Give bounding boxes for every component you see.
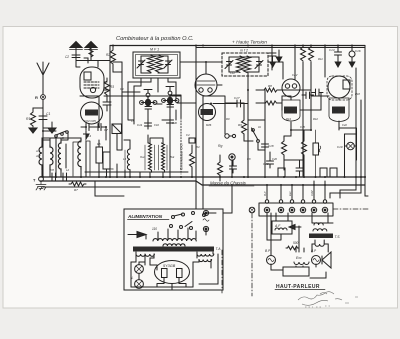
capacitor C4: [81, 124, 94, 131]
wire: partial bus at y=172: [85, 171, 188, 173]
capacitor C13 with chassis arrow: [335, 46, 342, 68]
svg-text:B.P: B.P: [263, 191, 267, 196]
capacitor C8b: [63, 173, 67, 181]
mains voltage selector: [172, 216, 175, 219]
svg-text:R13: R13: [286, 117, 291, 121]
wire: left block verticals: [56, 61, 110, 177]
signature scribble: [298, 292, 342, 306]
svg-text:R11: R11: [318, 57, 323, 61]
terminal 3: [289, 207, 294, 212]
TA primary taps: [158, 228, 196, 239]
svg-text:R18: R18: [355, 92, 360, 96]
wire: line to alimentation: [95, 181, 124, 196]
svg-text:C11: C11: [137, 123, 143, 127]
wire: R14 tails: [256, 96, 282, 110]
resistor R10: [218, 160, 223, 178]
resistor R9: [242, 117, 247, 136]
oscillator coil stack 3 (dense): [162, 143, 165, 172]
V1 grid bars: [84, 82, 99, 88]
trimmer capacitor CT1: [146, 93, 150, 97]
wire: vertical feeder x122: [121, 62, 123, 150]
resistor R1: [31, 108, 44, 127]
svg-text:R6: R6: [110, 167, 114, 171]
TA tap coil row 2: [163, 244, 185, 246]
earth aerial symbol right: [90, 47, 92, 60]
oscillator coil stack 1: [127, 148, 130, 172]
wire: interconnect y62: [98, 61, 122, 63]
wire: rectifier pins: [150, 265, 186, 290]
terminal 1: [264, 207, 269, 212]
resistor box on bus 1: [278, 168, 285, 177]
wire: feeder x272: [271, 46, 273, 71]
TA secondary left (filaments): [136, 254, 154, 256]
wire: V4 top: [206, 62, 222, 74]
wire: feeder x295: [294, 46, 296, 81]
coil L3 with core: [58, 141, 61, 171]
svg-text:BL6: BL6: [334, 109, 343, 114]
TS core: [309, 234, 333, 239]
svg-text:C15: C15: [300, 125, 305, 129]
capacitor C2 on aerial stem: [72, 55, 80, 58]
svg-text:C8: C8: [247, 157, 251, 161]
MF1 trimmer cap right: [164, 56, 172, 73]
terminal T with earth: [39, 177, 44, 182]
tube V5 label BM7: [284, 107, 297, 114]
electrolytic C16 with chassis arrow: [349, 51, 355, 57]
resistor R16: [302, 138, 307, 157]
resistor R12: [309, 47, 314, 61]
node R terminal: [41, 95, 46, 100]
grommet terminal: [249, 207, 255, 213]
wire: coil stack drops to bus: [130, 170, 163, 177]
svg-text:C12: C12: [230, 71, 235, 75]
coil L1: [39, 145, 42, 170]
svg-text:S: S: [62, 136, 64, 140]
svg-text:Int: Int: [258, 125, 261, 129]
svg-text:C22: C22: [342, 123, 347, 127]
tube V5 top diodes: [282, 79, 300, 97]
svg-text:A.T: A.T: [35, 149, 41, 153]
tube V6 body: [329, 98, 349, 122]
trimmer capacitor CT2: [168, 91, 172, 95]
speaker frame box: [283, 267, 309, 276]
junction dots misc: [266, 184, 268, 186]
resistor R8 horizontal: [262, 88, 279, 92]
svg-text:R7: R7: [74, 188, 78, 192]
resistor R15: [282, 138, 287, 157]
svg-text:HAUT-PARLEUR: HAUT-PARLEUR: [276, 284, 320, 290]
speaker BP coil right: [312, 256, 321, 265]
resistor R3: [105, 78, 110, 98]
wire: speaker block: [271, 213, 326, 278]
svg-text:Rg: Rg: [218, 144, 222, 148]
svg-text:A.F: A.F: [274, 224, 281, 228]
TA secondary right row2: [199, 260, 212, 262]
TS secondary coil: [315, 244, 324, 246]
svg-text:L3: L3: [88, 134, 91, 138]
rectifier anode plates: [162, 269, 168, 278]
MF2 primary coil: [237, 56, 244, 73]
wire: V5 stem: [290, 97, 292, 136]
wire: feeder x352: [351, 46, 353, 51]
capacitor C18: [262, 141, 269, 151]
wire: left block horizontals: [42, 96, 99, 177]
svg-text:6M6: 6M6: [206, 123, 212, 127]
junction dots on chassis bus: [42, 176, 44, 178]
wire: alim internals: [131, 213, 216, 287]
wire: chassis bus lower: [40, 181, 365, 185]
tube V6 dashed shield: [327, 76, 352, 100]
MF2 secondary coil: [244, 56, 251, 73]
decoupling cap arrow pair left: [269, 53, 276, 62]
junction dots on HT rail: [112, 44, 114, 46]
svg-text:R3: R3: [110, 85, 114, 89]
wire: chassis bus upper: [40, 176, 365, 178]
MF1 secondary coil: [156, 55, 163, 72]
svg-text:L: L: [132, 276, 134, 280]
wire: V2 grid runs: [122, 92, 196, 104]
capacitor C6: [103, 98, 111, 111]
wire: vertical feeder x196 to alim: [195, 46, 197, 210]
capacitor C15: [312, 89, 323, 96]
resistor box on bus 2: [330, 168, 337, 177]
oscillator coil stack 2 (dense): [149, 143, 152, 172]
svg-text:R5: R5: [97, 142, 101, 146]
wire: feeder x265: [264, 90, 266, 176]
svg-text:M F 1: M F 1: [150, 48, 159, 52]
wire: coil frame lines: [73, 141, 90, 176]
svg-text:B.P: B.P: [311, 249, 317, 253]
wire: right side drops to terminal row: [267, 181, 368, 198]
wire: feeder x325: [324, 46, 326, 78]
TA secondary right (HT): [197, 254, 214, 256]
svg-text:Commutateur O.C.: Commutateur O.C.: [180, 143, 184, 170]
svg-text:C2: C2: [65, 55, 69, 59]
IF transformer MF1 box: [133, 52, 180, 78]
commutateur dashed shaft: [180, 118, 182, 174]
terminal 4: [300, 207, 305, 212]
transformer TA primary winding: [153, 239, 196, 241]
wire: MF1 internal joins: [141, 56, 168, 73]
svg-text:C8: C8: [50, 168, 54, 172]
wire: left column main: [42, 100, 44, 176]
resistor R14 horizontal: [264, 101, 278, 105]
wire: right rail 2: [360, 100, 362, 181]
wire: V2/V3 stems: [148, 107, 170, 123]
wire: detector output: [213, 85, 237, 104]
tube V5 body: [282, 100, 300, 121]
wire: V1 top cap: [84, 58, 88, 63]
svg-text:+ Haute Tension: + Haute Tension: [232, 40, 267, 46]
svg-text:C9: C9: [131, 119, 135, 123]
wire: MF1 out drops: [141, 78, 176, 92]
svg-text:R4: R4: [196, 145, 200, 149]
wire: lower return line: [43, 186, 140, 188]
svg-text:C1: C1: [46, 112, 50, 116]
svg-text:6C06: 6C06: [86, 111, 96, 116]
svg-text:BM7: BM7: [285, 109, 295, 114]
resistor R4: [190, 150, 195, 169]
arrow into AF box: [289, 225, 301, 230]
terminal plugs: [267, 197, 325, 200]
capacitor C20: [267, 152, 274, 168]
svg-text:C20: C20: [272, 157, 277, 161]
wire: aerial junction: [76, 61, 98, 68]
TA core: [133, 247, 214, 252]
tube V1 envelope: [80, 67, 104, 98]
padder box C7: [112, 124, 122, 134]
wire: alim to chassis right: [223, 185, 232, 213]
band switch contacts: [56, 131, 66, 135]
resistor R7 horizontal: [69, 182, 86, 186]
wire: feeder x203 to alim: [202, 96, 204, 209]
svg-text:Masse du Chassis: Masse du Chassis: [210, 181, 247, 186]
MF1 trimmer cap left: [137, 56, 145, 73]
wire: right B+ rail: [364, 46, 366, 182]
resistor R0 on earth stem: [89, 48, 93, 57]
svg-text:ALIMENTATION: ALIMENTATION: [127, 214, 163, 219]
wire: right rail 3: [355, 68, 357, 181]
svg-text:L2: L2: [66, 168, 69, 172]
V1 anode box: [84, 72, 91, 80]
wire: alim bottom run: [131, 254, 218, 287]
resistor R2: [111, 47, 116, 66]
wire: bus hangers: [117, 92, 176, 177]
svg-text:C17: C17: [234, 96, 240, 100]
capacitor C19 on bus: [230, 160, 237, 173]
output transformer TS primary coil: [314, 223, 323, 225]
wire: lamps chain: [139, 262, 145, 280]
svg-text:Exc: Exc: [288, 191, 292, 196]
earth symbol under T: [36, 182, 46, 191]
capacitor C21: [296, 160, 303, 177]
svg-text:R: R: [35, 95, 38, 100]
svg-text:R9: R9: [238, 123, 242, 127]
svg-text:C7: C7: [104, 128, 108, 132]
MF1 primary coil: [148, 55, 155, 72]
resistor box on bus 3: [320, 168, 327, 177]
wire: feeder x248: [247, 76, 249, 176]
svg-text:R12: R12: [313, 117, 318, 121]
svg-text:L4: L4: [123, 157, 126, 161]
svg-text:m f 2: m f 2: [240, 49, 248, 53]
wire: link MF1 to V2: [128, 78, 151, 120]
wire: coil stack tops: [124, 138, 163, 148]
capacitor C5: [94, 124, 106, 141]
svg-text:C4: C4: [186, 133, 190, 137]
MF2 trimmer right: [255, 57, 263, 72]
svg-text:Exc: Exc: [296, 256, 302, 260]
wire: C7 drop: [116, 134, 118, 151]
terminal 2: [278, 207, 283, 212]
wire: top HT rail: [110, 45, 365, 47]
IF transformer MF2 dashed box: [222, 53, 268, 76]
svg-text:C13: C13: [329, 48, 335, 52]
wire: vertical feeder x110: [109, 46, 111, 177]
wire: coil bottoms to bus: [42, 170, 81, 177]
wire: V6 stems: [338, 98, 340, 130]
V1 cathode circle: [90, 87, 95, 92]
resistor box R5: [96, 147, 103, 163]
wire: det area horizontals: [203, 96, 265, 150]
wire: AVC line: [104, 95, 181, 97]
wire: vertical feeder x170: [169, 95, 171, 176]
ground arrow under R1: [29, 128, 37, 133]
antenna: [37, 62, 49, 94]
pilot lamp 2: [135, 280, 144, 289]
speaker cone: [322, 252, 331, 268]
capacitor C1: [39, 100, 47, 129]
switch lever: [252, 128, 259, 140]
svg-text:CAV: CAV: [292, 73, 298, 77]
tube V6 output: [328, 76, 350, 98]
tube V1 base circle with label 6C06: [81, 102, 103, 124]
wire: R2 drop: [113, 46, 122, 73]
resistor box R6 on bus: [103, 152, 110, 169]
potentiometer contacts: [225, 134, 229, 138]
tube V6 label BL6: [332, 107, 345, 114]
terminal strip outline: [259, 203, 333, 216]
pilot lamp 1: [135, 265, 144, 274]
svg-text:C20: C20: [263, 162, 269, 166]
capacitor C8 on bus: [52, 173, 56, 181]
dash-dot below alimentation: [221, 250, 223, 293]
AF unit box: [272, 221, 292, 234]
svg-text:6H8: 6H8: [202, 110, 210, 115]
wire: MF1 to detector grid: [180, 61, 206, 63]
alimentation box: [124, 209, 223, 290]
dash-dot boundary vertical: [251, 213, 253, 296]
volume pot knob: [229, 154, 235, 160]
tube V4 detector: [195, 74, 217, 96]
wire: second HT rail: [196, 47, 365, 49]
wire: AF feeds: [267, 213, 288, 240]
capacitor C10 small box: [189, 138, 195, 143]
wire: R8 ends: [256, 89, 311, 91]
svg-text:C16: C16: [355, 49, 361, 53]
svg-text:C3: C3: [120, 87, 124, 91]
svg-text:R2: R2: [106, 53, 110, 57]
svg-text:500: 500: [293, 241, 299, 245]
svg-text:T.S: T.S: [335, 235, 341, 239]
svg-text:R1: R1: [26, 117, 30, 121]
svg-text:R8: R8: [268, 84, 272, 88]
capacitor C12: [167, 116, 174, 129]
pickup jack circle: [347, 142, 355, 150]
coil L2: [50, 145, 53, 170]
potentiometer R17 box: [313, 143, 319, 155]
wire: af horizontals right: [282, 93, 357, 161]
capacitor C17: [237, 100, 248, 107]
mains terminals: [203, 210, 208, 215]
svg-text:B.P: B.P: [265, 249, 271, 253]
wire: TS connections: [312, 213, 333, 252]
ground arrow under C4: [83, 131, 89, 139]
dash-dot boundary horizontal: [333, 208, 368, 210]
wire: feeder x311: [310, 46, 312, 91]
svg-text:C18: C18: [268, 144, 274, 148]
capacitor C14 coupling: [302, 92, 314, 99]
resistor R11: [301, 47, 306, 61]
svg-text:R9: R9: [226, 117, 230, 121]
terminal 5: [311, 207, 316, 212]
svg-text:T.A: T.A: [216, 247, 222, 251]
chassis arrow at C1 foot: [43, 122, 56, 133]
svg-text:C10: C10: [154, 123, 159, 127]
wire: MF2 to V5: [268, 62, 283, 79]
svg-text:110: 110: [152, 227, 157, 231]
wire: mid drops: [117, 88, 170, 150]
wire: MF2 internals: [229, 57, 259, 76]
wire: coil tops: [42, 131, 81, 145]
svg-text:B.E: B.E: [170, 155, 175, 159]
coil L4 oscillator: [78, 139, 81, 170]
svg-text:C40: C40: [172, 121, 177, 125]
wire: exc drops: [296, 226, 304, 252]
outdoor aerial symbol left: [75, 47, 77, 60]
capacitor C11: [145, 119, 152, 129]
wire: V3 to det: [170, 95, 181, 118]
rectifier tube 5Y3GB: [155, 261, 190, 284]
phase arrow: [128, 232, 146, 238]
wire: feeder x303: [302, 46, 304, 177]
tube V4 base label 6H8: [199, 104, 216, 121]
svg-text:C19: C19: [337, 145, 343, 149]
speaker BP coil left: [267, 256, 276, 265]
MF2 trimmer left: [225, 57, 233, 72]
decoupling cap arrow pair 2: [276, 50, 282, 62]
svg-text:Osc: Osc: [140, 155, 145, 159]
svg-text:Combinateur à la position O.C.: Combinateur à la position O.C.: [116, 36, 194, 42]
terminal 6: [322, 207, 327, 212]
svg-text:5Y3GB: 5Y3GB: [163, 264, 176, 268]
